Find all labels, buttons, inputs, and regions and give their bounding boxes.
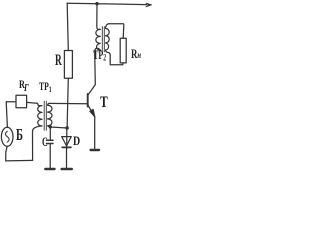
node TP1 secondary bottom dot bbox=[49, 125, 52, 128]
resistor R bbox=[64, 51, 72, 79]
ground under D bbox=[62, 168, 72, 170]
label TP1 bbox=[39, 80, 59, 94]
wire R bottom down to bias node bbox=[67, 78, 68, 128]
supply arrow bbox=[146, 3, 152, 7]
node top rail junction dot bbox=[95, 2, 98, 5]
label TP2 bbox=[93, 49, 113, 63]
wire junction down to TP2 primary bbox=[97, 4, 100, 30]
transformer TP1 primary winding bbox=[33, 103, 43, 160]
label C bbox=[42, 136, 51, 149]
transformer TP2 core bbox=[102, 27, 104, 52]
wire bias node to C/D node bbox=[50, 127, 67, 128]
wire top supply rail bbox=[67, 3, 146, 4]
wire RG right to TP1 primary bbox=[27, 101, 37, 104]
label RG bbox=[19, 78, 28, 90]
label B bbox=[16, 126, 27, 143]
transistor T base bar bbox=[87, 94, 89, 107]
capacitor C plates bbox=[47, 127, 54, 168]
wire source bottom loop to TP1 primary bottom bbox=[6, 146, 33, 161]
resistor RG bbox=[16, 95, 27, 108]
resistor RH bbox=[120, 38, 126, 63]
label D bbox=[73, 135, 82, 148]
label RG subscript bbox=[24, 84, 30, 94]
wire from top rail down to resistor R bbox=[67, 3, 68, 50]
ground under C bbox=[45, 168, 54, 170]
label RH bbox=[131, 47, 146, 62]
transistor T emitter with arrow bbox=[88, 105, 95, 148]
label T bbox=[100, 95, 110, 111]
transformer TP2 secondary winding bbox=[106, 24, 111, 55]
diode D bbox=[62, 130, 72, 168]
transistor T collector wire from TP2 primary bbox=[88, 48, 100, 94]
node bias junction dot bbox=[65, 126, 68, 129]
transformer TP2 primary winding bbox=[96, 29, 100, 50]
transformer TP1 secondary winding bbox=[48, 103, 52, 127]
wire TP2 secondary top to RH top bbox=[109, 24, 124, 39]
ground under emitter bbox=[91, 149, 99, 151]
label R bbox=[55, 53, 66, 69]
transformer TP1 core bbox=[44, 101, 46, 130]
wire base from TP1 secondary to transistor base bbox=[50, 102, 88, 104]
wire TP2 secondary bottom to RH bottom bbox=[110, 55, 123, 65]
source B circle with sine bbox=[1, 127, 13, 146]
wire RG left down to source B bbox=[6, 102, 16, 128]
